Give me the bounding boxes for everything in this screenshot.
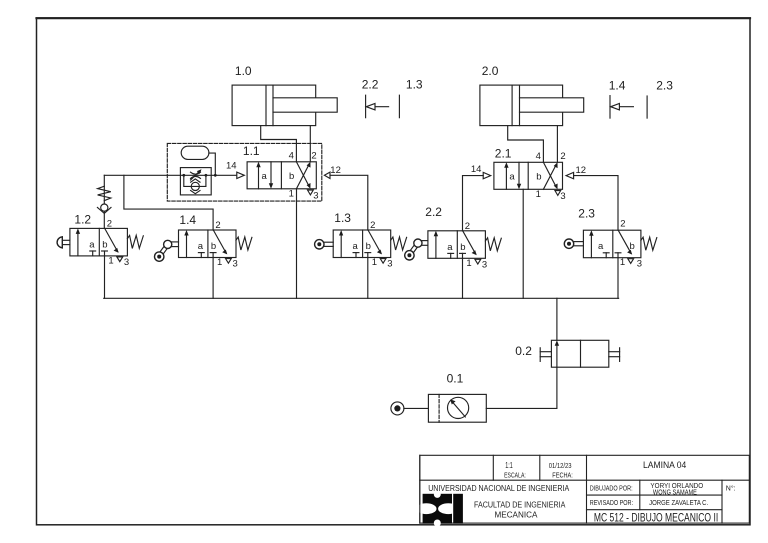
svg-text:JORGE ZAVALETA C.: JORGE ZAVALETA C.: [649, 500, 708, 507]
svg-text:2.3: 2.3: [656, 79, 673, 93]
position mark 2.2: [366, 95, 389, 118]
supply bus line: [104, 297, 619, 299]
svg-text:2.3: 2.3: [578, 207, 595, 221]
svg-text:3: 3: [482, 259, 487, 270]
svg-text:12: 12: [330, 165, 341, 176]
wire source to service unit 0.1: [404, 407, 429, 409]
svg-text:UNIVERSIDAD NACIONAL DE INGENI: UNIVERSIDAD NACIONAL DE INGENIERIA: [428, 484, 570, 493]
svg-text:01/12/23: 01/12/23: [549, 461, 572, 470]
svg-text:b: b: [211, 241, 216, 252]
svg-text:b: b: [102, 239, 107, 250]
svg-text:2: 2: [107, 219, 112, 230]
svg-text:N°:: N°:: [726, 484, 736, 492]
svg-text:b: b: [460, 242, 465, 253]
wire valve 2.1 pilot 12 to valve 2.3 port 2: [574, 176, 618, 231]
valve 1.4 return spring: [236, 237, 252, 250]
wire timer input line to pilot 14 of valve 1.1: [104, 174, 237, 176]
cylinder 2.0: [480, 85, 584, 126]
svg-text:a: a: [198, 241, 204, 252]
valve 2.2 (3/2 roller lever, spring return): [428, 231, 486, 264]
svg-text:1: 1: [289, 188, 294, 199]
wire valve 2.2 port 1 to bus: [462, 258, 464, 298]
valve 1.3 (3/2 roller, spring return): [333, 230, 391, 263]
svg-text:1.2: 1.2: [74, 213, 91, 227]
wire valve 2.3 port 1 to bus: [617, 258, 619, 299]
valve 2.1 pilot 12 arrowhead: [566, 172, 574, 178]
valve 1.4 roller lever actuator: [155, 240, 179, 261]
wire cyl1.0 right port to valve 1.1 port 2: [309, 126, 311, 162]
svg-text:a: a: [447, 242, 453, 253]
svg-text:b: b: [366, 241, 371, 252]
wire valve 1.4 port 1 to bus: [212, 258, 214, 299]
title block outer: [420, 455, 750, 523]
dashed enclosure timer unit: [167, 143, 321, 201]
wire valve 2.2 port 2 to valve 2.1 pilot 14: [463, 176, 484, 231]
dibujado/revisado rows: [587, 494, 723, 496]
valve 2.3 return spring: [641, 237, 657, 250]
wire cyl2.0 left port to valve 2.1 port 4: [508, 126, 544, 163]
wire shut-off 0.2 down and to service unit 0.1: [486, 367, 557, 408]
wire valve 1.1 port 1 to bus: [296, 189, 298, 298]
air service unit 0.1: [428, 394, 486, 422]
svg-text:0.1: 0.1: [447, 372, 464, 386]
flow control valve (throttle with check bypass): [180, 168, 211, 195]
wire valve 1.2 port 1 to bus: [104, 256, 106, 298]
svg-text:2: 2: [215, 220, 220, 231]
svg-text:2: 2: [620, 218, 625, 229]
svg-text:WONG SAMAME: WONG SAMAME: [653, 490, 697, 497]
svg-text:0.2: 0.2: [515, 344, 532, 358]
valve 2.2 return spring: [485, 238, 501, 251]
svg-text:14: 14: [226, 160, 237, 171]
svg-text:3: 3: [387, 259, 392, 270]
svg-text:a: a: [262, 171, 268, 182]
svg-text:1.4: 1.4: [609, 79, 626, 93]
svg-text:b: b: [289, 171, 294, 182]
svg-text:3: 3: [637, 259, 642, 270]
svg-text:2.1: 2.1: [495, 147, 512, 161]
svg-text:14: 14: [471, 164, 482, 175]
junction node on flow line: [214, 174, 217, 177]
svg-text:2: 2: [311, 151, 316, 162]
valve 2.2 roller lever actuator: [405, 239, 428, 260]
wire cyl1.0 left port to valve 1.1 port 4: [261, 126, 297, 162]
spring-loaded check valve above valve 1.2: [97, 175, 111, 228]
valve 1.1 (4/2 double pilot): [247, 162, 316, 195]
svg-text:3: 3: [560, 191, 565, 202]
wire valve 1.1 pilot 12 to valve 1.3 port 2: [330, 175, 368, 230]
svg-text:4: 4: [289, 151, 294, 162]
wire branch to valve 1.4 port 2: [124, 175, 213, 230]
svg-text:1.1: 1.1: [243, 144, 260, 158]
valve 1.4 (3/2 roller lever, spring return): [179, 230, 237, 263]
svg-text:2: 2: [370, 220, 375, 231]
valve 1.1 pilot 12 arrowhead: [324, 172, 330, 178]
valve 1.2 return spring: [127, 235, 143, 248]
air reservoir: [181, 146, 209, 159]
valve 1.3 roller actuator: [315, 240, 334, 249]
svg-text:1.4: 1.4: [179, 213, 196, 227]
svg-text:1: 1: [372, 257, 377, 268]
valve 1.2 pushbutton actuator: [57, 237, 70, 248]
wire reservoir to flow line: [209, 153, 215, 175]
wire valve 1.3 port 1 to bus: [367, 258, 369, 299]
svg-text:3: 3: [313, 190, 318, 201]
valve 1.2 (3/2 pushbutton, spring return): [70, 228, 128, 261]
position mark 1.3: [398, 95, 400, 118]
svg-text:FACULTAD DE INGENIERIA: FACULTAD DE INGENIERIA: [474, 500, 566, 509]
svg-text:4: 4: [536, 151, 541, 162]
valve 2.1 pilot 14 arrowhead: [483, 172, 491, 178]
svg-text:ESCALA:: ESCALA:: [504, 471, 526, 480]
valve 1.3 return spring: [391, 237, 407, 250]
svg-text:1.0: 1.0: [235, 64, 252, 78]
wire valve 2.1 port 1 to bus: [522, 189, 524, 298]
svg-text:1: 1: [217, 257, 222, 268]
svg-text:1.3: 1.3: [334, 211, 351, 225]
shut-off valve 0.2: [540, 340, 619, 367]
svg-text:MC 512 - DIBUJO MECANICO II: MC 512 - DIBUJO MECANICO II: [594, 513, 718, 525]
title block texts: [428, 460, 735, 525]
svg-text:a: a: [598, 241, 604, 252]
svg-text:b: b: [536, 171, 541, 182]
svg-text:2.2: 2.2: [362, 78, 379, 92]
svg-text:2.0: 2.0: [482, 64, 499, 78]
valve 1.1 pilot 14 arrowhead: [237, 172, 245, 178]
svg-text:12: 12: [576, 165, 587, 176]
svg-text:LAMINA 04: LAMINA 04: [643, 460, 686, 471]
svg-text:3: 3: [124, 257, 129, 268]
svg-text:2: 2: [465, 221, 470, 232]
title block left border (redrawn over logo cutout): [419, 455, 421, 523]
svg-text:DIBUJADO POR:: DIBUJADO POR:: [590, 485, 633, 492]
svg-text:b: b: [630, 241, 635, 252]
position mark 2.3: [646, 96, 648, 118]
svg-text:a: a: [509, 171, 515, 182]
compressed air supply source: [391, 402, 404, 415]
svg-text:1: 1: [108, 255, 113, 266]
valve 2.1 (4/2 double pilot): [494, 162, 563, 195]
position mark 1.4: [610, 96, 633, 119]
svg-text:1:1: 1:1: [505, 461, 513, 470]
wire bus to shut-off valve 0.2: [556, 298, 558, 340]
svg-text:REVISADO POR:: REVISADO POR:: [590, 500, 633, 507]
svg-text:1: 1: [536, 189, 541, 200]
svg-text:3: 3: [233, 259, 238, 270]
svg-text:MECANICA: MECANICA: [495, 511, 539, 520]
svg-text:1.3: 1.3: [406, 78, 423, 92]
cylinder 1.0: [232, 85, 337, 126]
svg-text:a: a: [353, 241, 359, 252]
svg-text:1: 1: [620, 257, 625, 268]
UNI logo: [416, 491, 463, 527]
svg-text:1: 1: [466, 258, 471, 269]
svg-text:FECHA:: FECHA:: [552, 471, 573, 480]
valve 2.3 roller actuator: [564, 239, 583, 248]
svg-text:2.2: 2.2: [425, 205, 442, 219]
svg-text:2: 2: [560, 151, 565, 162]
valve 2.3 (3/2 roller, spring return): [583, 230, 641, 263]
title row 1 cells: [420, 479, 749, 481]
wire cyl2.0 right port to valve 2.1 port 2: [556, 126, 558, 163]
svg-text:a: a: [89, 239, 95, 250]
